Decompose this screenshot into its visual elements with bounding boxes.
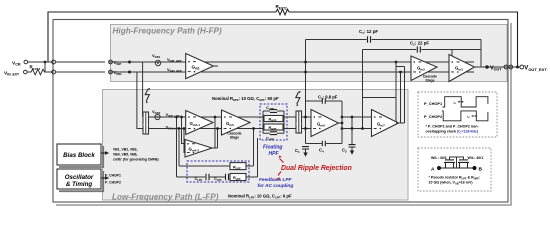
svg-text:Bias Block: Bias Block [63,152,95,159]
transistor M1 [444,162,455,168]
wire Gm6 apex join [339,122,343,124]
wire share verticals to Gm4-2 [182,117,186,153]
L-FP gray box [103,90,409,201]
svg-text:& Timing: & Timing [66,181,93,188]
svg-text:P_CHOP1: P_CHOP1 [424,101,443,106]
resistor REXT2 [276,9,289,15]
wire Gm1 apex stub [213,65,218,67]
resistor RHPF box 1 [264,116,283,122]
op-amp Gm5 cascode [222,110,251,135]
svg-text:VB1, VB2, VB3,: VB1, VB2, VB3, [113,148,138,152]
wire REXT2 feedback loop [48,12,518,67]
svg-text:Oscillator: Oscillator [65,174,94,181]
svg-text:Stage: Stage [230,135,239,139]
pin chip-edge bottom [52,70,56,74]
wire Gm4-2 output risers [212,117,218,148]
wire Gm7 output risers [396,67,405,124]
wire C2 Miller loop (22pF) [363,49,482,51]
svg-text:HPF: HPF [269,151,280,157]
op-amp Gm6 [311,110,339,137]
svg-text:A: A [431,166,435,172]
arrow bias [101,152,106,154]
node B [473,166,477,170]
svg-text:Feedback LPF: Feedback LPF [259,177,293,183]
wire rails chip edge to HFP box [56,62,106,72]
wire HFP input rails [109,62,474,72]
waveform PCHOP2 [442,111,488,121]
svg-text:W/L: 40/1: W/L: 40/1 [431,156,447,160]
feedback LPF box (blue dashed) [187,161,249,182]
svg-text:P_CHOP1: P_CHOP1 [105,173,121,177]
svg-text:P_CHOP2: P_CHOP2 [105,181,121,185]
op-amp Gm3 [449,55,475,82]
capacitor C2 to ground [351,117,353,145]
svg-text:VB4, VB5, VB6,: VB4, VB5, VB6, [113,153,138,157]
junction input [44,61,47,64]
node VOUT [485,65,489,69]
wire C1 Miller loop (top, 12pF) [306,39,482,41]
clock dashed box [418,92,497,137]
op-amp Gm1 [186,54,214,79]
red arrow to LPF label [278,172,281,176]
capacitor C4 [322,141,325,147]
svg-text:Dual Ripple Rejection: Dual Ripple Rejection [281,165,352,172]
node tap N [128,71,131,74]
svg-text:for AC coupling: for AC coupling [258,183,294,189]
pin chip-edge top [52,60,56,64]
chip box [53,20,508,203]
wire C1 down to output [480,40,482,68]
chip box shadow [56,23,511,205]
resistor RLPF box 1 [230,163,246,170]
wire tap N down to LFP [137,72,143,129]
chopper switch 1 [143,112,149,134]
wire C2 stub to Gm3 [451,50,453,57]
pin HFP edge out [504,65,508,69]
H-FP gray box [111,25,508,82]
red arrow to HPF [280,159,284,163]
risers from LPF to rails [254,129,258,178]
gate tie to middle [450,157,464,168]
capacitor CHPF bottom [263,132,284,134]
Oscillator & Timing box [59,171,103,191]
HPF ladder rails [256,111,296,133]
node column x305.5 [305,40,307,144]
wire A-B [439,167,475,169]
capacitor C2 22pF [417,46,420,52]
wire feedback verticals from LPF [177,117,180,177]
svg-text:P_CHOP2: P_CHOP2 [424,114,443,119]
wire rails Gm6 to Gm7 [342,117,372,129]
op-amp Gm4-1 [186,111,213,135]
svg-text:W/L: 40/1: W/L: 40/1 [468,156,484,160]
op-amp Gm2 cascode [411,56,437,81]
node tap P [128,61,131,64]
pseudo-resistor dashed box [418,148,491,191]
wire C3 loop [306,101,343,144]
Bias Block box [59,146,103,167]
svg-text:B: B [479,166,483,172]
wire VCM to VIN join [44,62,46,72]
wire column x362.5 from C2' wire down [362,50,364,129]
arrow osc [101,177,106,179]
capacitor C1 12pF [368,36,371,42]
wire rails chopper2 to Gm6 [302,117,312,129]
chopper switch 2 [296,111,302,133]
svg-text:Floating: Floating [263,145,282,151]
ground [350,151,354,155]
op-amp Gm7 [372,110,399,137]
floating HPF box (blue dashed) [260,104,287,140]
resistor REXT1 [27,69,53,75]
chopper symbol 1 [145,89,149,101]
waveform PCHOP1 [443,97,488,107]
chopper symbol 2 [296,92,300,104]
svg-text:High-Frequency Path (H-FP): High-Frequency Path (H-FP) [113,26,222,35]
node REXT2 join [516,66,519,69]
wire VCM [28,61,53,63]
wire tap P down to LFP [142,62,144,117]
svg-text:* P_CHOP1 and P_CHOP2 non-: * P_CHOP1 and P_CHOP2 non- [426,124,480,128]
wire output [475,66,521,68]
wire LFP rails segment A [149,117,256,129]
svg-text:Stage: Stage [425,78,434,82]
resistor RLPF box 2 [230,174,246,181]
ground [303,153,307,157]
capacitor C3 [322,98,325,104]
op-amp Gm4-2 [185,140,212,158]
wire LPF A [177,166,231,177]
svg-text:Low-Frequency Path (L-FP): Low-Frequency Path (L-FP) [112,193,219,202]
wire C4 loop [306,143,343,145]
svg-text:VOUT_EXT: VOUT_EXT [524,66,547,72]
wire loop y97.5 [363,62,397,123]
resistor RHPF box 2 [264,124,283,130]
transistor M2 [458,162,469,168]
svg-text:cmfb' (for generating CMFB): cmfb' (for generating CMFB) [113,157,159,161]
pin VINP [109,60,113,64]
pin chip edge out [509,65,513,69]
pin VINN [109,70,113,74]
terminal VOUT_EXT [520,65,524,69]
